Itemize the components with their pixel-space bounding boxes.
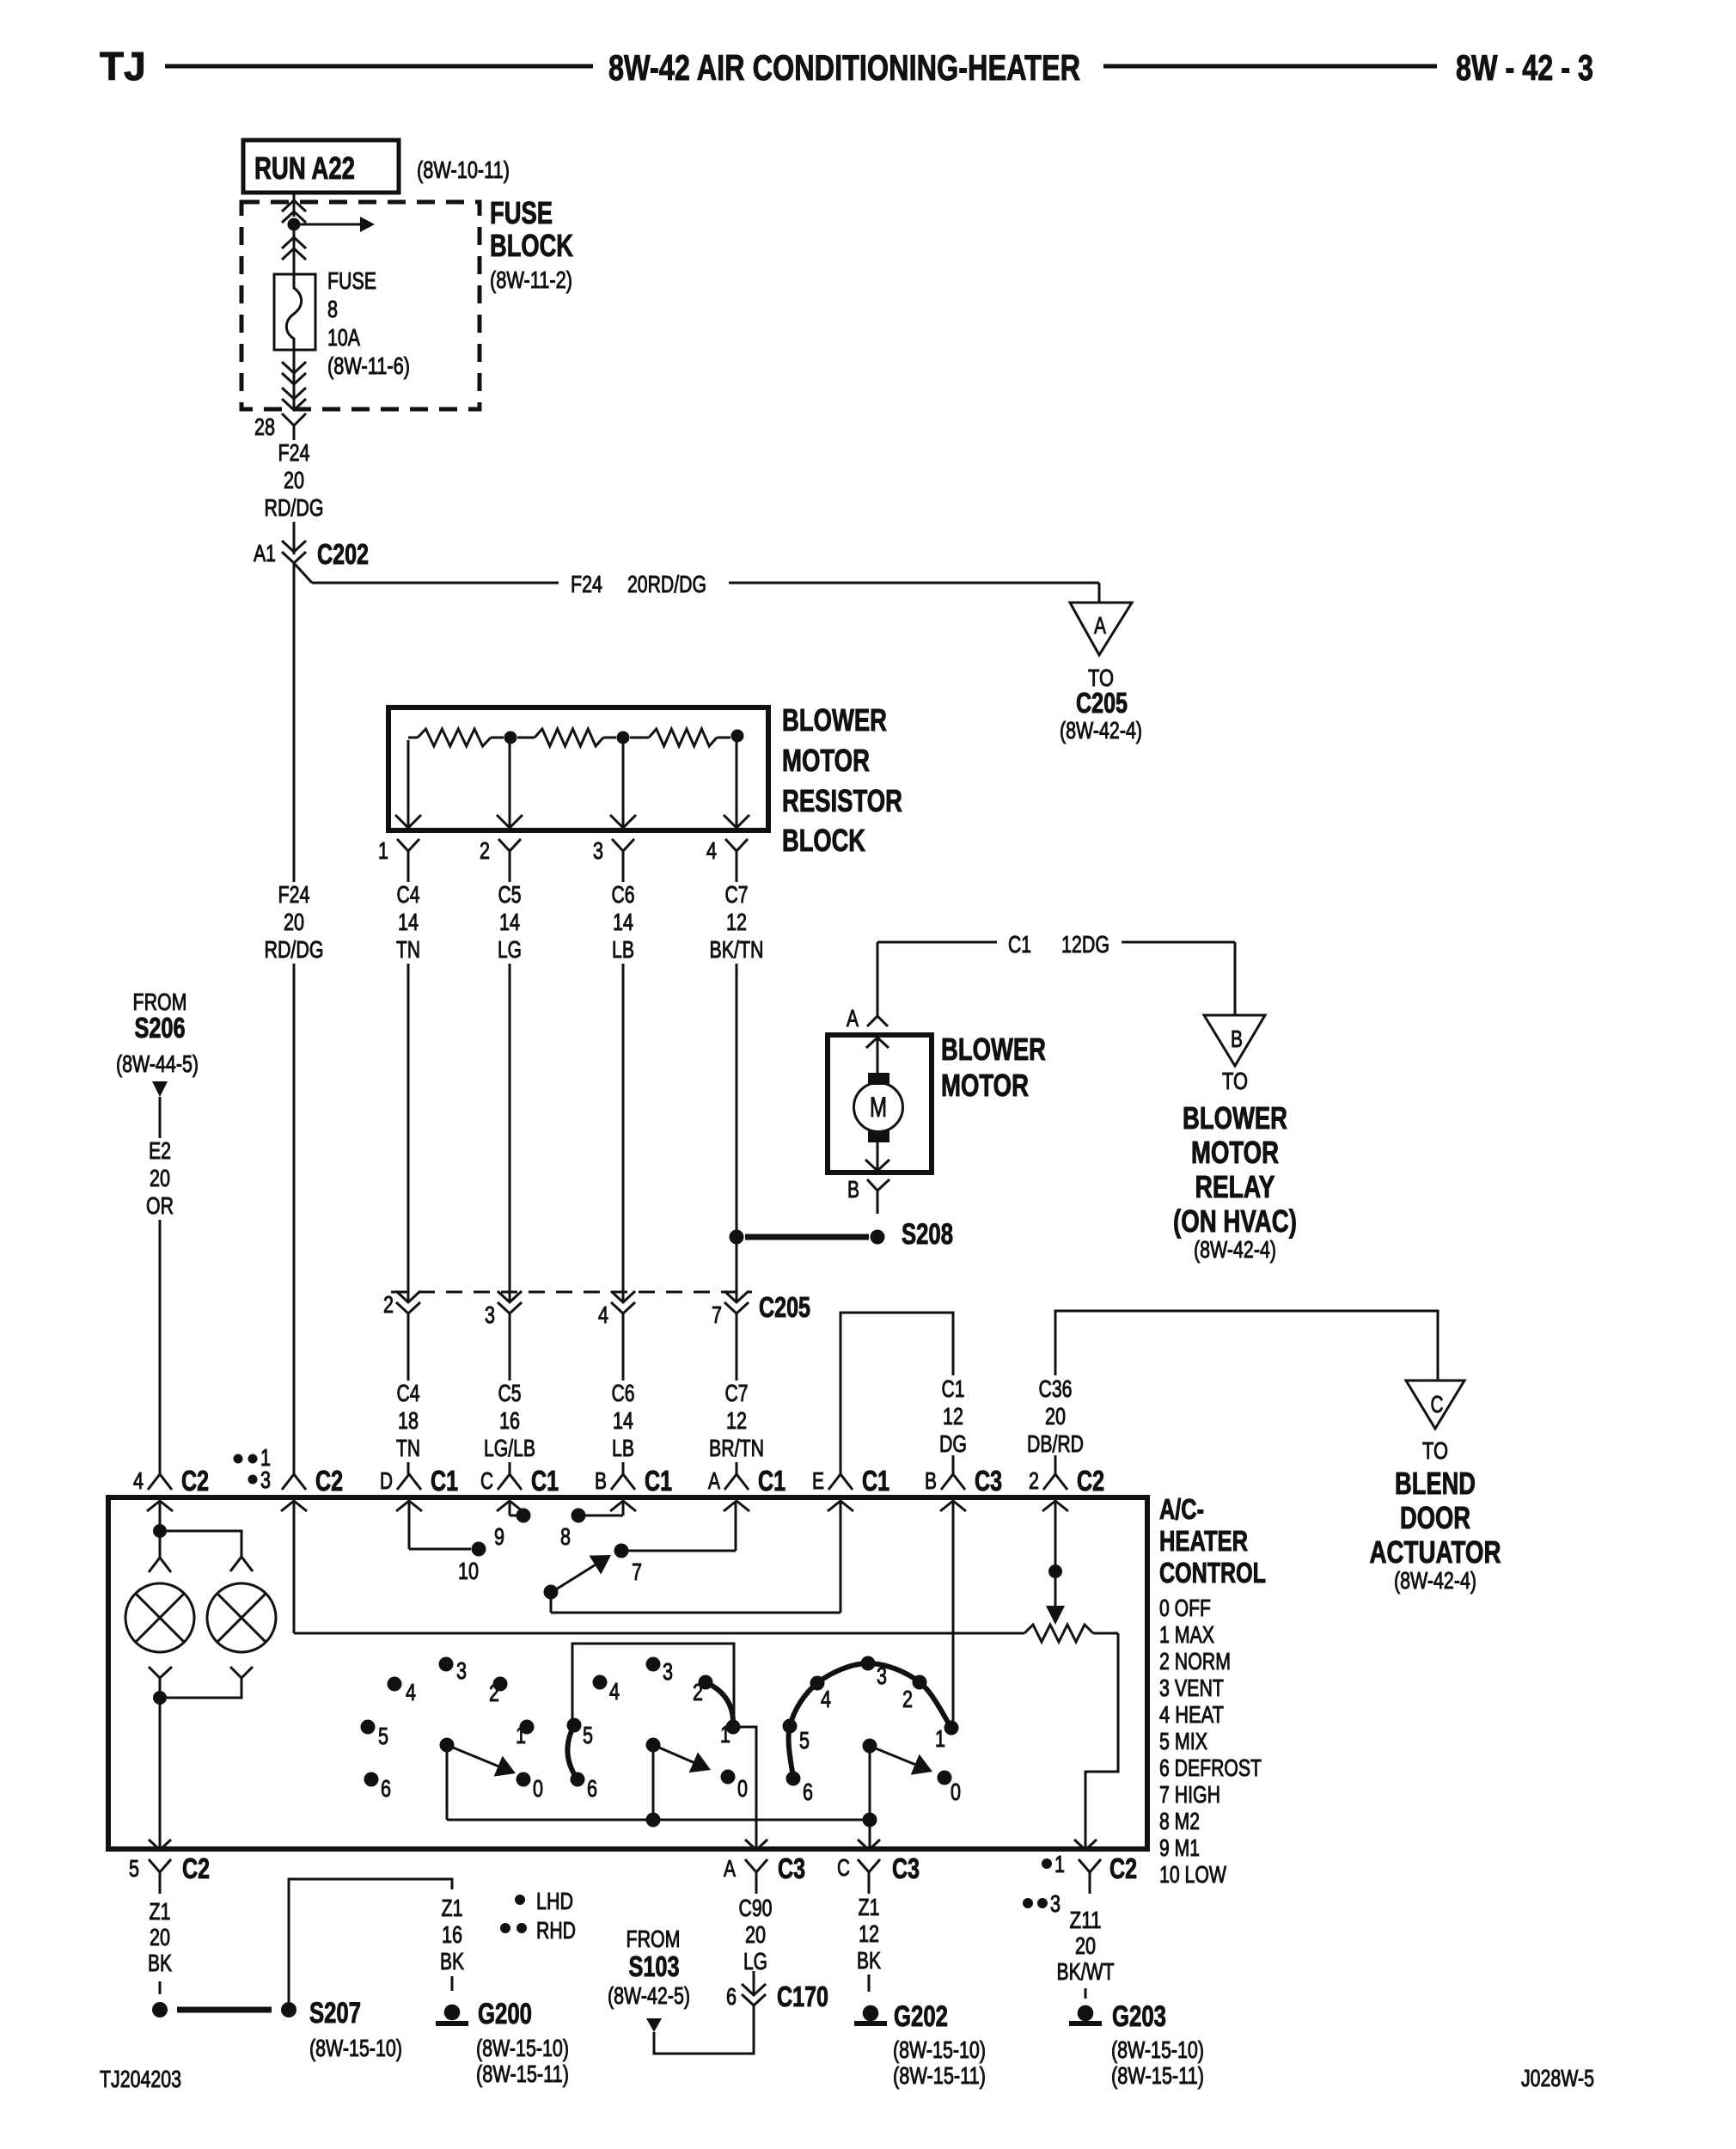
svg-text:3: 3 (485, 1301, 495, 1328)
svg-text:DOOR: DOOR (1400, 1500, 1470, 1535)
svg-text:6: 6 (803, 1779, 813, 1805)
svg-text:0: 0 (951, 1779, 961, 1805)
svg-text:C1: C1 (1008, 931, 1031, 958)
svg-text:S207: S207 (309, 1997, 361, 2030)
svg-text:5: 5 (799, 1727, 810, 1754)
svg-text:A: A (847, 1005, 859, 1032)
svg-text:RD/DG: RD/DG (265, 494, 324, 521)
svg-text:1: 1 (1054, 1851, 1065, 1877)
svg-text:12: 12 (859, 1920, 879, 1947)
svg-text:C7: C7 (725, 881, 749, 908)
svg-text:3: 3 (456, 1657, 467, 1684)
svg-text:20: 20 (150, 1165, 170, 1191)
svg-text:J028W-5: J028W-5 (1521, 2065, 1594, 2091)
svg-text:LG: LG (743, 1948, 767, 1975)
svg-text:5: 5 (129, 1855, 139, 1882)
svg-text:4: 4 (598, 1301, 608, 1328)
svg-text:BK/TN: BK/TN (710, 936, 764, 963)
svg-text:3: 3 (260, 1466, 271, 1493)
svg-text:BK: BK (440, 1948, 464, 1975)
svg-text:BLOCK: BLOCK (490, 228, 573, 263)
svg-text:(8W-15-10): (8W-15-10) (476, 2035, 569, 2061)
svg-text:C: C (480, 1467, 493, 1494)
svg-text:3: 3 (593, 837, 603, 864)
svg-text:(8W-44-5): (8W-44-5) (116, 1050, 199, 1077)
svg-text:RUN A22: RUN A22 (254, 150, 355, 186)
svg-text:DB/RD: DB/RD (1027, 1430, 1084, 1457)
svg-text:(8W-42-4): (8W-42-4) (1394, 1567, 1476, 1594)
svg-text:RHD: RHD (536, 1917, 576, 1944)
svg-text:1: 1 (720, 1721, 730, 1748)
svg-text:14: 14 (398, 909, 419, 935)
svg-text:B: B (925, 1467, 937, 1494)
svg-text:4: 4 (133, 1467, 144, 1494)
svg-text:A/C-: A/C- (1159, 1493, 1204, 1525)
svg-text:C205: C205 (1076, 687, 1128, 719)
svg-text:ACTUATOR: ACTUATOR (1370, 1534, 1501, 1570)
svg-text:0: 0 (533, 1775, 543, 1802)
svg-text:F24: F24 (278, 439, 310, 466)
svg-text:1 MAX: 1 MAX (1159, 1621, 1214, 1648)
svg-text:5 MIX: 5 MIX (1159, 1728, 1207, 1754)
svg-text:BR/TN: BR/TN (709, 1435, 764, 1461)
svg-text:2: 2 (1029, 1467, 1039, 1494)
svg-text:4: 4 (821, 1686, 831, 1712)
svg-text:C202: C202 (317, 538, 369, 570)
svg-text:5: 5 (583, 1722, 593, 1748)
svg-text:TO: TO (1422, 1437, 1448, 1464)
svg-text:9 M1: 9 M1 (1159, 1834, 1200, 1861)
svg-text:S206: S206 (135, 1012, 186, 1044)
svg-text:C4: C4 (397, 1380, 420, 1406)
svg-text:G203: G203 (1112, 2000, 1166, 2033)
svg-text:BLOWER: BLOWER (782, 702, 887, 738)
svg-text:18: 18 (398, 1407, 419, 1434)
svg-text:M: M (870, 1092, 887, 1123)
svg-text:FROM: FROM (627, 1926, 681, 1952)
svg-text:F24: F24 (571, 571, 602, 597)
svg-text:20: 20 (1045, 1403, 1066, 1430)
svg-text:C1: C1 (942, 1375, 965, 1402)
svg-text:(8W-42-4): (8W-42-4) (1060, 717, 1142, 744)
svg-text:OR: OR (146, 1192, 174, 1219)
svg-text:2 NORM: 2 NORM (1159, 1648, 1231, 1675)
svg-text:20: 20 (150, 1924, 170, 1950)
svg-text:C: C (837, 1854, 850, 1881)
svg-text:C170: C170 (777, 1981, 828, 2012)
svg-text:LG/LB: LG/LB (484, 1435, 535, 1461)
svg-text:10: 10 (458, 1558, 479, 1584)
svg-text:16: 16 (499, 1407, 520, 1434)
svg-text:MOTOR: MOTOR (782, 743, 870, 778)
svg-text:12: 12 (726, 909, 747, 935)
svg-text:28: 28 (254, 413, 275, 440)
svg-text:C2: C2 (182, 1852, 210, 1884)
svg-text:7: 7 (712, 1301, 722, 1328)
svg-text:MOTOR: MOTOR (1191, 1135, 1279, 1170)
svg-text:BK: BK (857, 1947, 881, 1974)
svg-text:10 LOW: 10 LOW (1159, 1861, 1226, 1888)
svg-text:BLOWER: BLOWER (1183, 1100, 1287, 1136)
svg-text:8W-42 AIR CONDITIONING-HEATER: 8W-42 AIR CONDITIONING-HEATER (608, 47, 1080, 88)
svg-text:C2: C2 (315, 1465, 343, 1497)
svg-text:S208: S208 (902, 1218, 953, 1251)
svg-text:(8W-11-6): (8W-11-6) (327, 352, 410, 379)
svg-text:4: 4 (406, 1679, 416, 1705)
svg-text:BLEND: BLEND (1395, 1466, 1476, 1501)
svg-text:BK/WT: BK/WT (1057, 1958, 1115, 1985)
svg-text:1: 1 (935, 1725, 945, 1752)
svg-text:C6: C6 (612, 1380, 635, 1406)
svg-text:TJ204203: TJ204203 (100, 2066, 181, 2092)
svg-text:C36: C36 (1039, 1375, 1073, 1402)
svg-text:C3: C3 (892, 1852, 920, 1884)
svg-text:9: 9 (494, 1523, 504, 1550)
svg-text:4 HEAT: 4 HEAT (1159, 1701, 1224, 1728)
svg-text:C: C (1431, 1391, 1444, 1417)
svg-text:LB: LB (612, 936, 634, 963)
svg-text:10A: 10A (327, 324, 360, 351)
svg-text:3: 3 (1050, 1890, 1061, 1917)
svg-text:FUSE: FUSE (490, 195, 553, 230)
svg-text:D: D (380, 1467, 393, 1494)
svg-text:TN: TN (396, 936, 420, 963)
svg-text:16: 16 (442, 1921, 462, 1948)
svg-text:CONTROL: CONTROL (1159, 1557, 1266, 1589)
svg-text:HEATER: HEATER (1159, 1525, 1248, 1557)
svg-text:(8W-10-11): (8W-10-11) (417, 156, 510, 183)
svg-text:RESISTOR: RESISTOR (782, 783, 902, 818)
svg-text:Z1: Z1 (150, 1898, 171, 1925)
svg-text:20: 20 (745, 1921, 766, 1948)
svg-text:E: E (812, 1467, 824, 1494)
svg-text:6 DEFROST: 6 DEFROST (1159, 1754, 1262, 1781)
svg-text:C90: C90 (739, 1895, 773, 1921)
svg-text:7 HIGH: 7 HIGH (1159, 1781, 1220, 1808)
svg-text:FUSE: FUSE (327, 267, 376, 294)
svg-text:(8W-15-11): (8W-15-11) (1111, 2062, 1204, 2089)
svg-text:12DG: 12DG (1061, 931, 1109, 958)
svg-text:B: B (847, 1176, 859, 1203)
svg-text:6: 6 (726, 1983, 737, 2010)
svg-text:DG: DG (939, 1430, 967, 1457)
svg-text:4: 4 (609, 1678, 620, 1705)
svg-text:F24: F24 (278, 881, 310, 908)
svg-text:G200: G200 (478, 1998, 532, 2030)
svg-text:(8W-11-2): (8W-11-2) (490, 266, 572, 293)
svg-text:G202: G202 (894, 2000, 948, 2033)
svg-text:C5: C5 (498, 881, 522, 908)
svg-text:C7: C7 (725, 1380, 749, 1406)
svg-text:C5: C5 (498, 1380, 522, 1406)
svg-text:C3: C3 (778, 1852, 805, 1884)
svg-text:(8W-15-11): (8W-15-11) (476, 2060, 569, 2087)
svg-text:20: 20 (284, 909, 304, 935)
svg-text:C4: C4 (397, 881, 420, 908)
svg-text:3 VENT: 3 VENT (1159, 1675, 1224, 1701)
svg-text:TJ: TJ (100, 44, 146, 89)
svg-text:S103: S103 (629, 1950, 680, 1982)
svg-text:1: 1 (516, 1722, 526, 1748)
svg-text:(8W-15-10): (8W-15-10) (1111, 2036, 1204, 2063)
svg-text:LG: LG (498, 936, 522, 963)
svg-text:Z11: Z11 (1070, 1907, 1102, 1933)
svg-text:0: 0 (737, 1775, 748, 1802)
svg-text:E2: E2 (149, 1137, 171, 1164)
svg-text:(8W-15-10): (8W-15-10) (893, 2036, 986, 2063)
svg-text:6: 6 (587, 1775, 597, 1802)
svg-text:7: 7 (632, 1558, 642, 1585)
svg-text:12: 12 (726, 1407, 747, 1434)
svg-text:B: B (1231, 1026, 1243, 1052)
svg-text:A: A (708, 1467, 720, 1494)
svg-text:C2: C2 (1109, 1852, 1137, 1884)
svg-text:2: 2 (693, 1679, 703, 1705)
svg-text:C2: C2 (1077, 1465, 1104, 1497)
svg-text:C3: C3 (975, 1465, 1002, 1497)
svg-text:2: 2 (480, 837, 490, 864)
svg-text:BK: BK (148, 1950, 172, 1976)
svg-text:A1: A1 (254, 540, 276, 566)
svg-text:20RD/DG: 20RD/DG (627, 571, 706, 597)
svg-text:1: 1 (378, 837, 388, 864)
svg-text:A: A (724, 1855, 736, 1882)
svg-text:14: 14 (613, 909, 633, 935)
svg-text:(8W-15-11): (8W-15-11) (893, 2062, 986, 2089)
svg-text:C1: C1 (431, 1465, 458, 1497)
svg-text:2: 2 (383, 1291, 394, 1318)
svg-text:C1: C1 (531, 1465, 559, 1497)
svg-text:LB: LB (612, 1435, 634, 1461)
svg-text:0 OFF: 0 OFF (1159, 1595, 1211, 1621)
svg-text:Z1: Z1 (859, 1894, 880, 1920)
svg-text:C1: C1 (862, 1465, 889, 1497)
svg-text:BLOWER: BLOWER (941, 1032, 1046, 1067)
svg-text:14: 14 (613, 1407, 633, 1434)
svg-text:2: 2 (902, 1686, 913, 1712)
svg-text:RELAY: RELAY (1195, 1169, 1275, 1204)
svg-text:C1: C1 (758, 1465, 785, 1497)
svg-text:BLOCK: BLOCK (782, 823, 865, 858)
svg-text:14: 14 (499, 909, 520, 935)
svg-text:LHD: LHD (536, 1888, 573, 1914)
svg-text:2: 2 (489, 1680, 499, 1706)
svg-text:B: B (595, 1467, 607, 1494)
svg-text:20: 20 (1075, 1932, 1096, 1959)
svg-text:Z1: Z1 (442, 1895, 463, 1921)
svg-text:12: 12 (943, 1403, 963, 1430)
svg-text:8: 8 (327, 296, 338, 322)
svg-text:C1: C1 (645, 1465, 672, 1497)
svg-text:(8W-42-5): (8W-42-5) (608, 1982, 690, 2009)
svg-text:TN: TN (396, 1435, 420, 1461)
svg-text:8: 8 (560, 1523, 571, 1550)
svg-text:4: 4 (706, 837, 717, 864)
svg-text:6: 6 (381, 1775, 391, 1802)
svg-text:8W - 42 - 3: 8W - 42 - 3 (1456, 47, 1593, 88)
svg-text:RD/DG: RD/DG (265, 936, 324, 963)
svg-text:5: 5 (378, 1723, 388, 1749)
svg-text:20: 20 (284, 467, 304, 493)
svg-text:C2: C2 (181, 1465, 209, 1497)
svg-text:(8W-15-10): (8W-15-10) (309, 2035, 402, 2061)
svg-text:(8W-42-4): (8W-42-4) (1194, 1236, 1276, 1263)
svg-text:8 M2: 8 M2 (1159, 1808, 1200, 1834)
svg-text:C6: C6 (612, 881, 635, 908)
svg-text:MOTOR: MOTOR (941, 1068, 1029, 1103)
svg-text:3: 3 (663, 1658, 673, 1685)
svg-text:(ON HVAC): (ON HVAC) (1173, 1203, 1297, 1239)
svg-text:TO: TO (1222, 1068, 1248, 1094)
svg-text:C205: C205 (759, 1291, 810, 1323)
svg-text:A: A (1094, 612, 1106, 639)
